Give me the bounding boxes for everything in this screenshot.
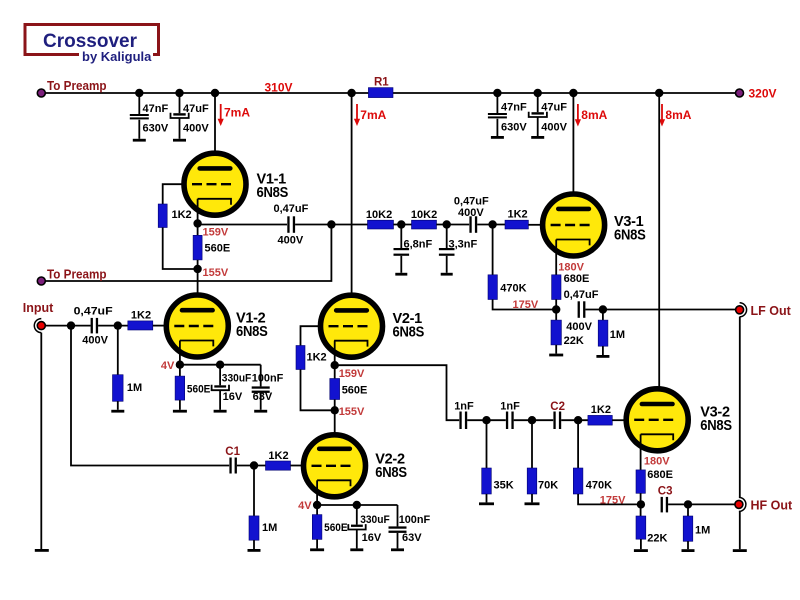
wire C1 to 1K2: [237, 465, 266, 467]
resistor 70K: [527, 420, 537, 502]
svg-text:470K: 470K: [586, 480, 612, 492]
svg-text:0,47uF: 0,47uF: [74, 305, 113, 317]
ground: [173, 139, 186, 142]
svg-text:To Preamp: To Preamp: [47, 267, 107, 281]
svg-text:63V: 63V: [253, 391, 273, 403]
tube V1-2: [166, 295, 228, 357]
wire V3-2 anode: [658, 93, 660, 404]
wire feedback to preamp: [45, 225, 331, 282]
ground: [133, 139, 146, 142]
capacitor C3: [661, 497, 735, 513]
tube V3-1: [543, 194, 605, 256]
node 159V V1: [193, 219, 201, 227]
resistor 1K2 V2-1 grid: [296, 346, 305, 370]
tube V3-2: [626, 389, 688, 451]
node 330uF V2-2: [353, 501, 361, 509]
svg-text:22K: 22K: [647, 532, 667, 544]
svg-text:100nF: 100nF: [252, 372, 284, 384]
svg-text:4V: 4V: [298, 500, 312, 512]
resistor 470K LF: [488, 225, 556, 310]
capacitor 0,47uF V1 out: [287, 216, 295, 233]
tube V2-2: [304, 435, 366, 497]
ground: [350, 548, 363, 551]
terminal Input: [34, 319, 45, 333]
capacitor 330uF V2-2: [348, 505, 365, 548]
node 1M input: [114, 321, 122, 329]
title box: [25, 25, 159, 64]
svg-text:LF Out: LF Out: [751, 304, 792, 318]
capacitor C2: [553, 412, 588, 430]
current arrow 7mA V2: [354, 104, 387, 126]
svg-text:7mA: 7mA: [360, 108, 386, 122]
svg-text:by Kaligula: by Kaligula: [82, 49, 152, 64]
terminal 320V: [736, 89, 744, 97]
svg-text:1K2: 1K2: [172, 209, 192, 221]
ground: [596, 355, 609, 358]
svg-text:400V: 400V: [541, 121, 567, 133]
wire cap to 1K2: [477, 224, 505, 226]
wire LF out line: [585, 309, 735, 311]
svg-text:155V: 155V: [339, 406, 365, 418]
capacitor 47uF right (electrolytic): [529, 93, 547, 136]
svg-text:330uF: 330uF: [360, 514, 390, 526]
svg-text:1K2: 1K2: [508, 209, 528, 221]
svg-text:400V: 400V: [278, 235, 304, 247]
node 175V HF: [637, 500, 645, 508]
terminal To Preamp top: [37, 89, 45, 97]
wire 1K2 to V3-2: [612, 419, 627, 421]
resistor 1M HF: [683, 504, 693, 549]
svg-text:6N8S: 6N8S: [375, 465, 407, 481]
wire V1-2 anode: [197, 269, 199, 311]
svg-text:To Preamp: To Preamp: [47, 79, 107, 93]
node 70K: [528, 416, 536, 424]
svg-text:8mA: 8mA: [665, 108, 691, 122]
wire 1K2 to 155V V2: [301, 370, 335, 411]
wire 560E to 155V node V2: [334, 400, 336, 411]
node C1 out: [250, 461, 258, 469]
resistor 1K2 V3-2 grid: [588, 415, 612, 425]
svg-text:159V: 159V: [339, 368, 365, 380]
svg-text:10K2: 10K2: [411, 209, 437, 221]
node 3,3nF: [443, 220, 451, 228]
wire 680E to 175V node HF: [640, 493, 642, 516]
resistor 470K HF: [573, 420, 641, 504]
node 4V V2-2: [313, 501, 321, 509]
wire 22K HF to ground: [640, 539, 642, 549]
svg-text:400V: 400V: [183, 122, 209, 134]
capacitor 0,47uF LF out: [578, 301, 586, 318]
capacitor 1nF second: [506, 412, 553, 430]
svg-text:HF Out: HF Out: [751, 498, 793, 512]
node 1M LF: [599, 305, 607, 313]
resistor 1M input: [113, 326, 124, 410]
svg-text:16V: 16V: [362, 532, 382, 544]
svg-text:1M: 1M: [610, 329, 625, 341]
svg-text:155V: 155V: [203, 267, 229, 279]
resistor 1K2 V2-2 grid: [266, 461, 291, 470]
ground: [391, 548, 404, 551]
tube V2-1: [321, 295, 383, 357]
svg-text:47uF: 47uF: [183, 103, 209, 115]
node 4V V1-2: [176, 361, 184, 369]
node 35K: [482, 416, 490, 424]
svg-text:560E: 560E: [342, 384, 368, 396]
wire 4V row V1-2: [180, 364, 261, 366]
terminal LF Out: [736, 303, 747, 317]
wire 159V row LF: [198, 224, 287, 226]
svg-text:330uF: 330uF: [222, 372, 252, 384]
svg-text:175V: 175V: [513, 299, 539, 311]
wire input to C1: [71, 326, 229, 466]
ground: [634, 549, 648, 552]
ground: [441, 273, 453, 276]
wire V3-1 anode: [572, 93, 574, 209]
wire 560E to 155V node: [197, 260, 199, 269]
svg-text:0,47uF: 0,47uF: [454, 195, 489, 207]
resistor 22K HF: [636, 516, 646, 539]
ground: [254, 410, 267, 413]
ground: [35, 549, 49, 552]
node 470K LF tap: [488, 220, 496, 228]
svg-text:680E: 680E: [647, 469, 673, 481]
svg-text:680E: 680E: [564, 273, 590, 285]
svg-text:Input: Input: [23, 301, 54, 315]
ground: [395, 273, 407, 276]
node 155V V1: [193, 265, 201, 273]
wire 1K2 to V1-2: [153, 325, 168, 327]
svg-text:1M: 1M: [695, 524, 710, 536]
node C2 out: [574, 416, 582, 424]
resistor 560E V1-2: [175, 376, 185, 400]
svg-text:630V: 630V: [501, 121, 527, 133]
wire 1K2 to V2-2: [291, 465, 306, 467]
resistor 35K: [482, 420, 492, 502]
resistor 1K2 V1-2 grid: [128, 321, 153, 330]
wire cap to 10K2: [295, 224, 367, 226]
terminal To Preamp bottom: [37, 277, 45, 285]
svg-text:6N8S: 6N8S: [700, 418, 732, 434]
node 330uF V1-2: [216, 361, 224, 369]
svg-text:159V: 159V: [203, 226, 229, 238]
svg-text:6N8S: 6N8S: [393, 324, 425, 340]
wire out shields: [739, 317, 741, 498]
svg-text:63V: 63V: [402, 532, 422, 544]
capacitor 0,47uF LF coupling: [469, 216, 477, 233]
ground: [173, 410, 187, 413]
ground: [525, 502, 540, 505]
svg-text:1M: 1M: [262, 522, 277, 534]
wire input shield ground: [40, 333, 42, 549]
svg-text:470K: 470K: [500, 282, 526, 294]
svg-text:100nF: 100nF: [399, 514, 431, 526]
node 1M HF: [684, 500, 692, 508]
node dots on B+ rail: [135, 89, 663, 97]
wire V1-1 cathode: [197, 199, 199, 236]
svg-text:47uF: 47uF: [541, 101, 567, 113]
svg-text:C2: C2: [550, 401, 565, 413]
resistor 1M LF: [598, 310, 608, 356]
ground: [479, 502, 494, 505]
resistor 560E V1-1: [193, 235, 202, 260]
svg-text:180V: 180V: [644, 456, 670, 468]
node 159V V2: [331, 361, 339, 369]
node 6,8nF: [397, 220, 405, 228]
wire V2-1 anode: [351, 93, 353, 310]
svg-text:22K: 22K: [564, 335, 584, 347]
node 175V LF: [552, 305, 560, 313]
wire 1K2 to V3-1: [528, 224, 544, 226]
svg-text:70K: 70K: [538, 480, 558, 492]
svg-text:1nF: 1nF: [454, 401, 474, 413]
ground: [491, 136, 504, 139]
wire 4V row V2-2: [317, 504, 397, 506]
wire 22K to ground: [555, 345, 557, 354]
resistor 10K2 second: [412, 220, 437, 229]
svg-text:400V: 400V: [458, 207, 484, 219]
svg-text:3,3nF: 3,3nF: [449, 238, 478, 250]
ground: [531, 136, 544, 139]
ground: [682, 549, 695, 552]
svg-text:1K2: 1K2: [307, 352, 327, 364]
wire V1-1 anode: [214, 93, 216, 168]
capacitor 6,8nF: [394, 225, 410, 273]
svg-text:6,8nF: 6,8nF: [404, 238, 433, 250]
svg-text:10K2: 10K2: [366, 209, 392, 221]
svg-text:400V: 400V: [82, 334, 108, 346]
wire 10K2 to 10K2: [394, 224, 412, 226]
wire 159V to HF filter: [335, 365, 460, 420]
ground: [733, 549, 747, 552]
wire V2-1 cathode: [334, 341, 336, 379]
wire V3-1 cathode: [555, 240, 557, 275]
ground: [549, 354, 563, 357]
resistor 10K2 first: [368, 220, 394, 229]
resistor 680E V3-2: [636, 470, 645, 493]
wire 10K2 to cap: [437, 224, 470, 226]
capacitor C1: [229, 458, 237, 474]
svg-text:6N8S: 6N8S: [614, 228, 646, 244]
current arrow 8mA V3-2: [659, 104, 692, 127]
svg-text:1K2: 1K2: [268, 450, 288, 462]
ground: [248, 549, 261, 552]
svg-text:560E: 560E: [205, 243, 231, 255]
svg-text:310V: 310V: [265, 81, 293, 95]
wire input to cap: [45, 325, 90, 327]
wire 560E to ground V2-2: [316, 539, 318, 548]
resistor 1K2 V1-1 grid: [158, 204, 167, 228]
svg-text:16V: 16V: [223, 391, 243, 403]
node feedback tap: [327, 220, 335, 228]
tube V1-1: [184, 153, 246, 215]
svg-text:1nF: 1nF: [500, 401, 520, 413]
capacitor 3,3nF: [439, 225, 455, 273]
resistor 560E V2-2: [312, 515, 322, 540]
resistor 1M C1: [249, 466, 259, 550]
svg-text:560E: 560E: [187, 383, 211, 395]
capacitor 1nF first: [459, 412, 505, 430]
capacitor 47nF right: [488, 93, 507, 136]
wire 680E to 175V node: [555, 300, 557, 321]
wire V2-2 anode: [334, 410, 336, 448]
svg-text:7mA: 7mA: [224, 106, 250, 120]
wire B+ rail: [45, 92, 739, 94]
wire V1-2 cathode: [179, 341, 181, 377]
current arrow 8mA V3-1: [575, 104, 608, 127]
svg-text:320V: 320V: [749, 87, 777, 101]
wire V2-1 grid loop: [301, 326, 322, 345]
resistor R1: [368, 88, 393, 98]
terminal HF Out: [735, 497, 746, 511]
svg-text:C3: C3: [658, 486, 673, 498]
svg-text:0,47uF: 0,47uF: [564, 289, 599, 301]
node 155V V2: [331, 406, 339, 414]
capacitor 100nF V1-2: [252, 365, 270, 410]
svg-text:180V: 180V: [558, 262, 584, 274]
svg-text:1K2: 1K2: [591, 404, 611, 416]
svg-text:175V: 175V: [600, 495, 626, 507]
svg-text:35K: 35K: [494, 480, 514, 492]
ground: [111, 410, 124, 413]
capacitor 47nF left: [130, 93, 149, 139]
node input split: [67, 321, 75, 329]
svg-text:560E: 560E: [324, 522, 348, 534]
wire HF shield to ground: [739, 511, 741, 549]
svg-text:1M: 1M: [127, 382, 142, 394]
svg-text:47nF: 47nF: [501, 101, 527, 113]
capacitor 0,47uF input: [91, 318, 128, 334]
svg-text:6N8S: 6N8S: [257, 185, 289, 201]
svg-text:8mA: 8mA: [581, 108, 607, 122]
svg-text:1K2: 1K2: [131, 309, 151, 321]
svg-text:4V: 4V: [161, 360, 175, 372]
wire 1K2 to 155V: [163, 228, 198, 270]
ground: [214, 410, 227, 413]
svg-text:47nF: 47nF: [143, 103, 169, 115]
resistor 680E V3-1: [552, 275, 561, 300]
current arrow 7mA V1: [218, 104, 251, 126]
svg-text:400V: 400V: [566, 321, 592, 333]
wire V2-2 cathode: [316, 480, 318, 514]
wire V3-2 cathode: [640, 434, 642, 470]
capacitor 330uF V1-2: [212, 365, 229, 410]
capacitor 47uF left (electrolytic): [171, 93, 189, 139]
capacitor 100nF V2-2: [389, 505, 407, 548]
ground: [310, 548, 324, 551]
wire V1-1 grid loop: [163, 184, 185, 204]
svg-text:6N8S: 6N8S: [236, 324, 268, 340]
svg-text:R1: R1: [374, 77, 389, 89]
svg-text:630V: 630V: [143, 122, 169, 134]
svg-text:0,47uF: 0,47uF: [274, 203, 309, 215]
resistor 1K2 V3-1 grid: [505, 220, 528, 229]
resistor 22K LF: [551, 320, 561, 345]
svg-text:C1: C1: [225, 446, 240, 458]
wire 560E to ground V1-2: [179, 400, 181, 410]
resistor 560E V2-1: [330, 379, 340, 400]
